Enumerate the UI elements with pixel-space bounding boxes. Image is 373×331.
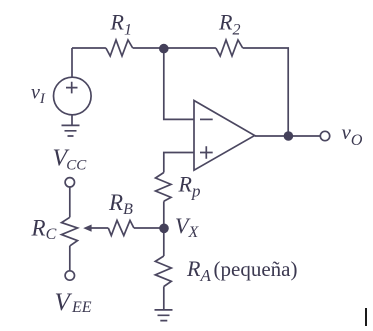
wire source top xyxy=(71,48,73,78)
wire RB to node VX xyxy=(134,227,164,229)
wire noninverting input xyxy=(164,153,194,173)
node junction output xyxy=(284,131,294,141)
page mark bottom right xyxy=(365,308,367,326)
VCC terminal circle xyxy=(65,178,74,187)
wire RA to ground xyxy=(163,287,165,310)
op-amp U1 xyxy=(194,101,255,171)
resistor RC potentiometer xyxy=(62,217,78,246)
VEE terminal circle xyxy=(65,271,74,280)
wire output xyxy=(255,135,321,137)
wire top-left from source to R1 xyxy=(72,47,106,49)
resistor R1 xyxy=(106,40,133,56)
resistor R2 xyxy=(216,40,243,56)
wire R1 to R2 through node xyxy=(133,47,216,49)
node junction R1-R2 xyxy=(159,44,169,54)
wiper arrowhead xyxy=(83,225,91,232)
source vI circle xyxy=(54,77,92,115)
wire VX to RA xyxy=(163,228,165,256)
ground under source xyxy=(62,125,80,136)
wire Rp to node VX xyxy=(163,201,165,228)
wire source bottom to ground xyxy=(71,115,73,126)
op-amp minus sign xyxy=(200,118,213,120)
wire RC to VEE xyxy=(69,246,71,271)
source plus sign xyxy=(66,82,78,94)
wire RB to wiper arrow xyxy=(91,227,109,229)
node VX junction xyxy=(159,224,169,234)
ground under RA xyxy=(155,310,173,321)
output terminal circle xyxy=(320,131,329,140)
wire R2 to feedback corner and down to output node xyxy=(243,48,289,136)
wire node to inverting input xyxy=(164,48,194,119)
resistor RB xyxy=(108,220,134,235)
resistor RA xyxy=(155,256,171,287)
resistor Rp xyxy=(156,173,172,202)
wire VCC to RC xyxy=(69,187,71,217)
op-amp plus sign xyxy=(200,146,213,159)
